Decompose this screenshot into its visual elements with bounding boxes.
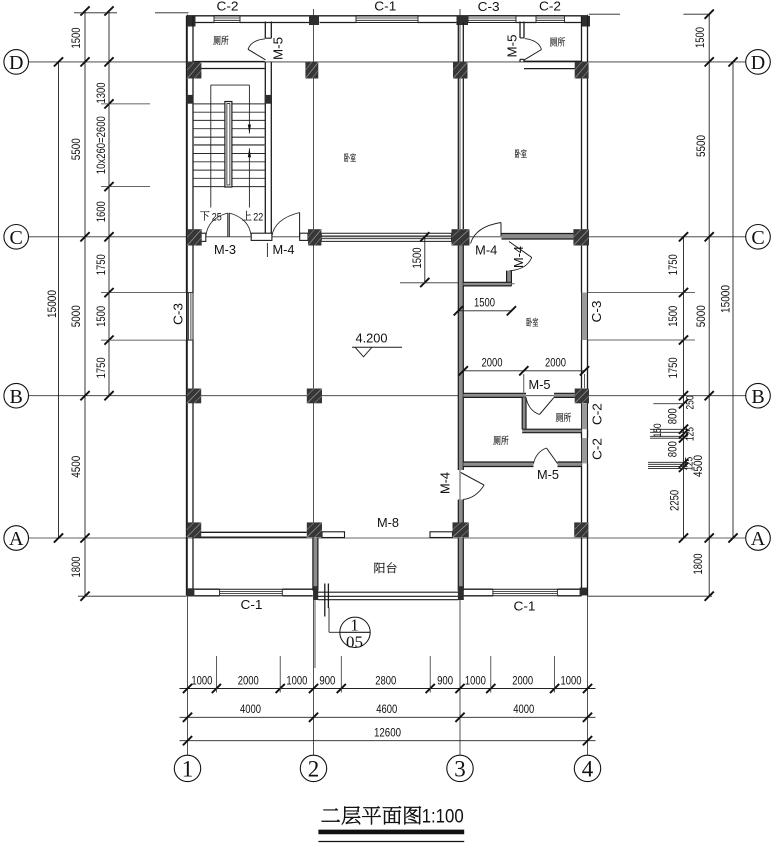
svg-text:1500: 1500 [69, 27, 83, 48]
label stair down 25 [200, 211, 209, 221]
axis line D [29, 61, 746, 63]
svg-text:125: 125 [684, 427, 696, 441]
svg-text:2800: 2800 [375, 673, 396, 687]
axis bubble D right [746, 50, 771, 75]
svg-text:4.200: 4.200 [356, 332, 388, 346]
svg-text:800: 800 [666, 408, 680, 424]
toilet-right west wall [519, 22, 521, 38]
svg-text:4500: 4500 [69, 456, 83, 478]
axis bubble 3 bottom [447, 755, 473, 781]
pier bottom-right corner [580, 588, 588, 596]
stair arrow up flight [248, 148, 250, 207]
closet wall vertical [507, 271, 512, 286]
svg-text:5500: 5500 [69, 138, 83, 160]
svg-text:1500: 1500 [693, 27, 707, 48]
svg-text:4600: 4600 [376, 702, 397, 716]
toilet-small west wall [522, 397, 526, 429]
window C-3 top [468, 15, 516, 17]
balcony west wall [313, 538, 318, 591]
svg-text:M-4: M-4 [475, 244, 497, 258]
label toilet small [556, 413, 563, 422]
axis bubble B right [746, 383, 771, 408]
balcony east wall [458, 538, 463, 591]
svg-text:1800: 1800 [69, 556, 83, 577]
svg-text:900: 900 [437, 673, 453, 687]
svg-text:A: A [9, 528, 24, 550]
axis-3 interior wall [457, 23, 459, 230]
window C-2 top-right [536, 15, 565, 17]
svg-text:C-3: C-3 [478, 0, 500, 14]
svg-text:150: 150 [652, 423, 664, 437]
svg-text:1000: 1000 [465, 673, 486, 687]
axis bubble A right [746, 526, 771, 551]
svg-text:C-2: C-2 [539, 0, 561, 14]
svg-text:1000: 1000 [191, 673, 212, 687]
svg-text:C-3: C-3 [172, 303, 186, 325]
door M-5 toilet-small [540, 397, 555, 414]
pier top-left corner [187, 16, 196, 27]
svg-text:D: D [9, 52, 23, 74]
svg-text:M-4: M-4 [273, 243, 295, 257]
label toilet top-left [213, 36, 220, 45]
svg-text:12600: 12600 [374, 726, 401, 740]
jamb stub M-3 west [201, 233, 206, 241]
axis bubble B left [4, 383, 29, 408]
M-8 stub west [322, 532, 345, 538]
svg-text:C-3: C-3 [590, 300, 604, 322]
jamb stub M-4 east [300, 233, 308, 240]
column D1 [187, 62, 201, 79]
window C-2 right wall upper [582, 404, 588, 429]
toilet-small south wall [522, 429, 581, 433]
svg-text:1800: 1800 [691, 553, 705, 574]
svg-text:2: 2 [308, 757, 320, 782]
svg-text:10x260=2600: 10x260=2600 [94, 116, 108, 174]
door M-4 axis3 wall [461, 473, 484, 486]
extension line balcony wall below [314, 599, 316, 669]
svg-text:C-1: C-1 [241, 598, 263, 612]
svg-text:1750: 1750 [94, 357, 108, 378]
svg-text:05: 05 [346, 633, 363, 652]
column C4 [573, 229, 589, 245]
window C-2 right wall lower [582, 438, 588, 463]
pier top axis3 [457, 16, 469, 25]
axis bubble C right [746, 225, 771, 250]
section leader [328, 608, 330, 633]
svg-text:C-2: C-2 [590, 438, 604, 460]
svg-text:15000: 15000 [45, 290, 59, 318]
top exterior wall [187, 15, 588, 17]
pier stair right wall [265, 95, 272, 104]
bottom wall right section [463, 588, 493, 590]
door stop line M-4 west [266, 243, 268, 257]
extension line bottom-right [588, 595, 713, 597]
label toilet top-right [550, 37, 557, 46]
axis line 2 [313, 9, 315, 755]
svg-text:1600: 1600 [94, 201, 108, 222]
svg-text:M-4: M-4 [512, 246, 526, 268]
column A3 [453, 522, 469, 537]
stair guide outline [211, 84, 250, 86]
label balcony [375, 563, 385, 574]
svg-text:1500: 1500 [94, 306, 108, 327]
stair center rail [225, 102, 232, 188]
svg-text:4000: 4000 [513, 702, 534, 716]
svg-text:B: B [751, 386, 764, 408]
svg-text:1500: 1500 [410, 247, 424, 268]
svg-text:M-5: M-5 [529, 378, 551, 392]
balcony front rail [318, 591, 458, 593]
stair arrow down flight [248, 85, 250, 133]
door M-3 double leaf west [227, 213, 229, 237]
window C-3 left wall [186, 293, 188, 341]
svg-text:900: 900 [319, 673, 335, 687]
svg-text:M-3: M-3 [214, 243, 236, 257]
column C3 [452, 229, 470, 245]
pier top axis2 [309, 16, 319, 25]
svg-text:M-4: M-4 [439, 472, 453, 494]
column D3 [453, 62, 468, 79]
dim line right middle chain [708, 14, 710, 596]
svg-text:5000: 5000 [694, 305, 708, 327]
wall stub between M-3 and M-4 [251, 233, 272, 240]
svg-text:1750: 1750 [666, 357, 680, 378]
svg-text:4000: 4000 [240, 702, 261, 716]
wall A west section [194, 531, 307, 533]
svg-text:250: 250 [684, 396, 696, 410]
svg-text:800: 800 [666, 441, 680, 457]
extension line left stair 1300 [101, 103, 150, 105]
right exterior wall [581, 16, 583, 293]
axis line 1 [187, 15, 189, 756]
title second floor plan [322, 808, 340, 821]
svg-text:3: 3 [454, 757, 466, 782]
label stair up 22 [242, 211, 251, 220]
svg-text:C: C [751, 227, 764, 249]
axis bubble 1 bottom [174, 755, 200, 781]
door M-4 closet [509, 242, 532, 258]
bottom dim row2 line [180, 716, 596, 718]
svg-text:1000: 1000 [561, 673, 582, 687]
svg-text:C-2: C-2 [590, 403, 604, 425]
dim line 15000 right [732, 62, 734, 538]
pier left wall stair [187, 95, 194, 104]
svg-text:C-1: C-1 [374, 0, 396, 14]
svg-text:B: B [10, 386, 23, 408]
extension leader lines right cluster lower [648, 461, 688, 463]
door M-3 double leaf east [228, 213, 230, 237]
door M-5 toilet top-left [248, 49, 266, 60]
svg-text:1750: 1750 [666, 254, 680, 275]
column D4 [575, 62, 589, 79]
left exterior wall [186, 16, 188, 293]
axis line 3 [459, 9, 461, 755]
window C-1 bottom-right [493, 588, 558, 590]
axis bubble A left [4, 526, 29, 551]
bottom wall left section [194, 588, 219, 590]
svg-text:1:100: 1:100 [422, 806, 464, 827]
dim line left middle chain [84, 11, 86, 596]
stair right wall [264, 22, 266, 39]
svg-text:125: 125 [683, 457, 695, 471]
svg-text:5000: 5000 [69, 305, 83, 327]
svg-text:5500: 5500 [694, 135, 708, 157]
pier top-right corner [581, 16, 590, 27]
svg-text:1750: 1750 [94, 254, 108, 275]
bedroom3 north wall [463, 282, 511, 286]
dim line 15000 left [58, 62, 60, 538]
svg-text:1500: 1500 [666, 306, 680, 327]
label bedroom top-right [515, 149, 520, 158]
dim line right detail chain [683, 237, 685, 538]
label bedroom3 [527, 318, 532, 327]
svg-text:M-8: M-8 [377, 516, 399, 530]
svg-text:M-5: M-5 [505, 35, 520, 58]
column C2 [308, 229, 321, 245]
column D2 [305, 62, 318, 79]
dim 1500 bedroom3 [458, 310, 511, 312]
label toilet big [493, 436, 500, 445]
axis line A [29, 537, 746, 539]
column B4 [575, 389, 589, 404]
wall D toilet-left floor [193, 61, 265, 63]
extension line bottom-left [78, 595, 187, 597]
svg-text:M-5: M-5 [537, 468, 559, 482]
pier bottom-left corner [187, 588, 194, 596]
svg-text:22: 22 [253, 211, 263, 223]
section bubble 1/05 [340, 617, 370, 647]
svg-text:C-2: C-2 [217, 0, 239, 14]
svg-text:2250: 2250 [668, 490, 682, 511]
extension leader lines right cluster upper [653, 403, 683, 405]
column A2 [307, 522, 322, 537]
window C-1 top [356, 15, 418, 17]
balcony rail end east [458, 586, 464, 600]
column A4 [574, 522, 588, 537]
axis bubble 4 bottom [574, 755, 600, 781]
door M-4 at C west [299, 213, 301, 237]
svg-text:A: A [751, 528, 766, 550]
door M-5 toilet-big [547, 448, 558, 464]
window C-3 right wall [582, 293, 588, 341]
svg-text:M-5: M-5 [271, 37, 286, 60]
column A1 [187, 522, 201, 537]
bottom extension lines [215, 656, 217, 693]
svg-text:15000: 15000 [718, 285, 732, 313]
dim 1500 vertical near C [424, 237, 426, 283]
stair treads [193, 103, 265, 105]
axis line 4 [587, 15, 589, 756]
extension line top-left [74, 12, 117, 14]
svg-text:1500: 1500 [474, 296, 495, 310]
wall B toilets north [463, 393, 526, 397]
title underline thin [318, 841, 464, 843]
wall C window band [321, 232, 451, 234]
balcony rail end west [313, 586, 318, 600]
svg-text:1300: 1300 [94, 82, 108, 103]
extension lines right windows [588, 292, 696, 294]
window C-1 bottom-left [220, 588, 283, 590]
bottom dim row1 line [180, 688, 596, 690]
axis bubble C left [4, 225, 29, 250]
svg-text:D: D [751, 52, 765, 74]
toilet-big south wall [463, 462, 533, 467]
axis bubble 2 bottom [300, 755, 326, 781]
column B1 [187, 389, 201, 404]
stair mid landing lines [193, 136, 265, 138]
axis line B [29, 395, 746, 397]
svg-text:C-1: C-1 [514, 600, 536, 614]
section cut line balcony [324, 584, 326, 617]
wall D toilet-right floor [524, 60, 582, 62]
window C-2 top-left [214, 15, 240, 17]
bottom dim row3 line [180, 740, 596, 742]
svg-text:2000: 2000 [545, 355, 566, 369]
svg-text:2000: 2000 [238, 673, 259, 687]
axis line C [29, 236, 746, 238]
svg-text:2000: 2000 [482, 355, 503, 369]
wall C east section [502, 234, 574, 240]
svg-text:2000: 2000 [512, 673, 533, 687]
svg-text:C: C [10, 227, 23, 249]
door M-5 toilet top-right [524, 50, 542, 61]
dim 2000 2000 above B [463, 370, 584, 372]
M-8 stub east [430, 532, 453, 538]
title underline thick [318, 830, 464, 835]
door M-4 at C east opening [500, 223, 502, 237]
svg-text:4: 4 [582, 757, 594, 782]
axis bubble D left [4, 50, 29, 75]
extension line top-right [589, 13, 620, 15]
svg-text:1000: 1000 [286, 673, 307, 687]
dim line left detail chain [108, 11, 110, 396]
column C1 [187, 229, 202, 245]
svg-text:1: 1 [182, 757, 194, 782]
column B2 [307, 389, 322, 404]
label bedroom top-middle [344, 153, 349, 162]
svg-text:25: 25 [212, 211, 222, 223]
extension lines left windows [101, 292, 187, 294]
